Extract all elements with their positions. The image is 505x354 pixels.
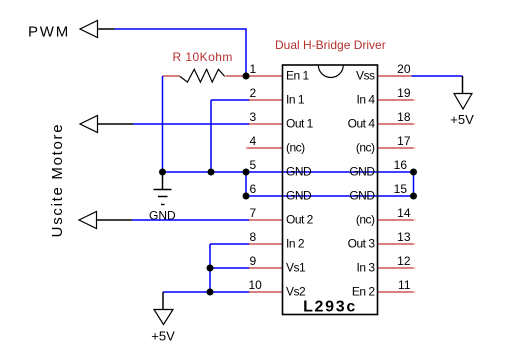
wire PWM vertical down to pin 1 [245,29,247,76]
svg-text:In 3: In 3 [356,260,375,274]
pin stub 2 [249,99,283,101]
svg-text:7: 7 [250,206,257,220]
ground symbol [154,172,172,205]
wire pin2 horizontal [211,99,250,101]
port arrow Out1 (Uscite Motore) [80,116,98,133]
svg-text:19: 19 [397,86,411,100]
wire pin3 blue horizontal [133,123,250,125]
junction node pin15 [410,193,417,200]
pin stub 14 with nc tick [377,219,414,221]
wire from resistor down to ground rail [162,76,164,172]
svg-text:Uscite Motore: Uscite Motore [49,123,66,238]
pin stub 3 [249,123,283,125]
power +5V symbol top [454,94,472,110]
junction node pin6 [243,193,250,200]
svg-text:In 2: In 2 [286,236,305,250]
svg-text:Vs2: Vs2 [286,284,306,298]
svg-text:GND: GND [349,188,375,202]
svg-text:GND: GND [286,188,312,202]
junction node pin9 [207,265,214,272]
svg-text:4: 4 [250,134,257,148]
wire pin3 black lead [98,123,134,125]
pin stub 7 [249,219,283,221]
wire pin20 blue horizontal [412,75,463,77]
junction node pin10 [207,289,214,296]
power +5V symbol bottom [154,310,173,325]
svg-text:+5V: +5V [450,112,474,127]
svg-text:16: 16 [394,158,408,172]
svg-text:Out 3: Out 3 [348,236,376,250]
pin stub 8 [249,243,283,245]
wire pin2 vertical down to rail [210,100,212,172]
pin stub 4 with nc tick [247,147,283,149]
svg-text:12: 12 [397,254,411,268]
svg-text:3: 3 [250,110,257,124]
svg-text:Vss: Vss [356,68,375,82]
op-amp U1 body L293c [283,65,378,315]
pin stub 11 with nc tick [377,291,414,293]
svg-text:10: 10 [249,278,263,292]
svg-text:(nc): (nc) [356,212,375,226]
wire PWM horizontal black lead [98,28,115,30]
pin stub 18 with nc tick [377,123,414,125]
wire pin6 net through IC to pin15 [245,172,247,196]
pin stub 10 [249,291,283,293]
wire pin7 black lead [97,219,133,221]
resistor R1 zigzag [180,69,225,82]
pin stub 20 [377,75,412,77]
svg-text:L293c: L293c [303,299,357,316]
svg-text:11: 11 [398,278,411,292]
pin stub 17 with nc tick [377,147,414,149]
U1 notch [318,65,343,78]
junction node rail at ground [159,169,166,176]
pin stub 19 with nc tick [377,99,414,101]
svg-text:Out 4: Out 4 [348,116,376,130]
svg-text:+5V: +5V [151,329,175,344]
junction node pin1/resistor/PWM [243,73,250,80]
svg-text:14: 14 [397,206,411,220]
svg-text:In 1: In 1 [286,92,305,106]
wire pin10 horizontal [163,291,250,293]
resistor R1 right lead [226,75,247,77]
wire right vertical joining pin16 and pin15 [413,172,415,196]
wire pin7 blue horizontal [132,219,250,221]
svg-text:En 2: En 2 [352,284,376,298]
pin stub 1 [246,75,283,77]
svg-text:In 4: In 4 [356,92,375,106]
wire pin8 horizontal [210,243,250,245]
svg-text:Out 1: Out 1 [286,116,314,130]
svg-text:(nc): (nc) [356,140,375,154]
port arrow PWM [80,21,98,38]
svg-text:1: 1 [250,62,257,76]
wire pin8 vertical down to pin10 row [209,244,211,292]
svg-text:15: 15 [394,182,408,196]
svg-text:(nc): (nc) [286,140,305,154]
wire +5V top vertical lead [462,76,464,94]
svg-text:17: 17 [397,134,411,148]
resistor R1 left lead [163,75,181,77]
pin stub 13 with nc tick [377,243,414,245]
svg-text:Vs1: Vs1 [286,260,306,274]
svg-text:GND: GND [286,164,312,178]
wire pin9 horizontal [210,267,250,269]
junction node rail at pin5 [243,169,250,176]
svg-text:PWM: PWM [28,24,70,41]
wire +5V bottom vertical lead [162,292,164,310]
pin stub 9 [249,267,283,269]
svg-text:5: 5 [250,158,257,172]
svg-text:8: 8 [250,230,257,244]
svg-text:20: 20 [397,62,411,76]
wire PWM horizontal blue to pin1 column [115,28,247,30]
svg-text:GND: GND [349,164,375,178]
svg-text:R 10Kohm: R 10Kohm [173,50,233,64]
svg-text:En 1: En 1 [286,68,310,82]
svg-text:13: 13 [397,230,411,244]
wire ground rail / pin5 net through IC to pin16 [163,171,414,173]
svg-text:6: 6 [250,182,257,196]
svg-text:Dual H-Bridge Driver: Dual H-Bridge Driver [275,38,386,52]
junction node pin16 [410,169,417,176]
port arrow Out2 (Uscite Motore) [79,212,97,229]
junction node rail at pin2 column [208,169,215,176]
svg-text:18: 18 [397,110,411,124]
svg-text:Out 2: Out 2 [286,212,314,226]
svg-text:2: 2 [250,86,257,100]
pin stub 12 with nc tick [377,267,414,269]
svg-text:9: 9 [250,254,257,268]
